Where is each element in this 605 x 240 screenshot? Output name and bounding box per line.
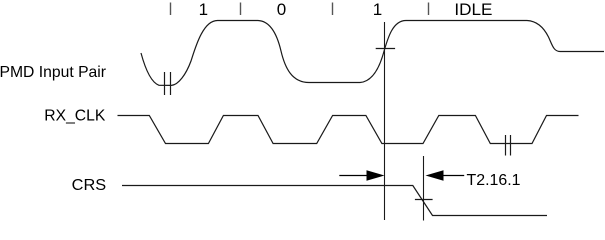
svg-text:0: 0 <box>277 0 286 19</box>
RX_CLK waveform <box>118 116 579 144</box>
svg-text:RX_CLK: RX_CLK <box>44 108 105 125</box>
crossing tick on PMD rising edge <box>376 48 395 50</box>
crossing tick on CRS falling edge <box>415 199 433 201</box>
bit cell tick 1 <box>170 3 172 16</box>
CRS waveform <box>122 186 547 216</box>
PMD break bar left <box>164 72 166 95</box>
RX_CLK break bar right <box>510 135 512 156</box>
bit cell tick 2 <box>240 3 242 16</box>
vertical reference line B <box>423 156 425 221</box>
bit cell tick 3 <box>332 3 334 16</box>
svg-text:T2.16.1: T2.16.1 <box>467 172 521 189</box>
svg-text:1: 1 <box>199 0 208 19</box>
bit cell tick 4 <box>428 3 430 16</box>
svg-text:IDLE: IDLE <box>454 0 492 19</box>
dimension arrow pointing left <box>426 170 444 181</box>
PMD Input Pair waveform <box>141 21 604 86</box>
vertical reference line A <box>384 22 386 220</box>
svg-text:PMD Input Pair: PMD Input Pair <box>0 64 107 81</box>
svg-text:1: 1 <box>373 0 382 19</box>
PMD break bar right <box>170 72 172 95</box>
dimension arrow pointing right <box>339 175 367 177</box>
RX_CLK break bar left <box>505 135 507 156</box>
svg-text:CRS: CRS <box>72 177 107 194</box>
